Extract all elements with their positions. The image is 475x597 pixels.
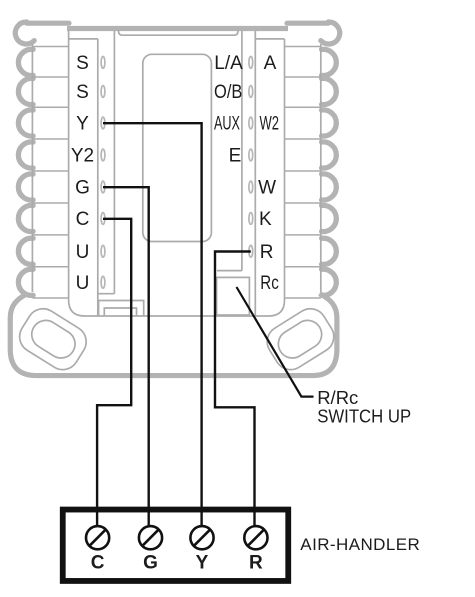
thermostat backplate top bar — [67, 26, 288, 31]
air-handler box — [63, 510, 289, 581]
right wire-comb scallop row 5 — [322, 174, 337, 200]
left holes strip right border — [113, 31, 115, 294]
right clip row separator y=46.5 — [285, 46, 321, 48]
svg-text:O/B: O/B — [214, 82, 242, 103]
left terminal hole row 3 — [101, 117, 105, 129]
right terminal box top border — [255, 38, 284, 40]
right mounting ear outer — [261, 303, 340, 376]
left wire-comb scallop row 7 — [18, 238, 33, 264]
left wire-comb scallop row 4 — [18, 142, 33, 168]
svg-text:U: U — [76, 273, 90, 294]
screw terminal G on air-handler — [139, 526, 162, 549]
left wire-comb scallop row 8 — [18, 269, 33, 295]
R/Rc switch leader line — [237, 287, 314, 397]
left wire-comb scallop row 6 — [18, 205, 33, 231]
left terminal hole row 2 — [101, 86, 105, 98]
left terminal hole row 5 — [101, 181, 105, 193]
svg-text:Y2: Y2 — [71, 146, 94, 167]
left bottom tab inner — [104, 308, 136, 316]
top-right wire clip — [287, 22, 340, 44]
left terminal hole row 6 — [101, 213, 105, 225]
left clip row separator y=203.0 — [32, 202, 68, 204]
svg-text:K: K — [259, 209, 272, 230]
right wire-comb scallop row 4 — [322, 142, 337, 168]
right clip row separator y=139.0 — [285, 138, 321, 140]
left terminal hole row 7 — [101, 245, 105, 257]
left mounting ear slot — [26, 315, 80, 363]
left wire-comb scallop row 2 — [18, 78, 33, 104]
R/Rc switch box — [217, 277, 250, 315]
right wire-comb scallop row 2 — [322, 78, 337, 104]
right terminal hole row 3 — [249, 117, 253, 129]
right clip row separator y=266.8 — [285, 266, 321, 268]
right terminal hole row 6 — [249, 213, 253, 225]
svg-text:L/A: L/A — [214, 53, 243, 74]
svg-text:S: S — [76, 82, 89, 103]
right terminal hole row 1 — [249, 57, 253, 69]
svg-text:C: C — [76, 209, 90, 230]
wire R: thermostat R terminal to air-handler R screw — [215, 252, 255, 527]
svg-text:C: C — [91, 553, 105, 574]
top notch below bar — [119, 30, 239, 35]
right terminal hole row 4 — [249, 149, 253, 161]
right clip row separator y=234.9 — [285, 234, 321, 236]
svg-text:S: S — [76, 53, 89, 74]
left wire-comb scallop row 5 — [18, 174, 33, 200]
left wire-comb scallop row 1 — [18, 49, 33, 75]
svg-text:G: G — [75, 178, 90, 199]
left mounting ear outer — [14, 303, 93, 376]
right terminal hole row 7 — [249, 245, 253, 257]
right wire-comb scallop row 8 — [322, 269, 337, 295]
left terminal hole row 8 — [101, 276, 105, 288]
left clip row separator y=171.0 — [32, 170, 68, 172]
left bottom tab outer — [99, 301, 144, 317]
svg-text:SWITCH UP: SWITCH UP — [317, 406, 411, 427]
inner bottom line — [84, 315, 269, 317]
left wire-comb scallop row 3 — [18, 110, 33, 136]
left clip row separator y=139.0 — [32, 138, 68, 140]
screw terminal C on air-handler — [86, 526, 109, 549]
svg-text:A: A — [264, 53, 277, 74]
right clip row separator y=298.0 — [285, 297, 321, 299]
left clip row separator y=298.0 — [32, 297, 68, 299]
right holes strip stub — [217, 270, 242, 272]
right holes strip left border — [241, 31, 243, 271]
right wire-comb scallop row 1 — [322, 49, 337, 75]
backplate bottom outline — [10, 294, 337, 376]
left terminal box left border — [69, 31, 85, 316]
left terminal box right border — [97, 39, 99, 316]
left clip row separator y=107.3 — [32, 106, 68, 108]
top-left wire clip — [15, 22, 69, 44]
svg-text:W: W — [258, 178, 276, 199]
svg-text:W2: W2 — [260, 114, 280, 135]
right terminal hole row 5 — [249, 181, 253, 193]
screw terminal R on air-handler — [244, 526, 267, 549]
right terminal hole row 2 — [249, 86, 253, 98]
left clip row separator y=234.9 — [32, 234, 68, 236]
left holes strip bottom cap — [98, 293, 115, 295]
right wire-comb scallop row 6 — [322, 205, 337, 231]
right comb spine — [320, 44, 322, 292]
svg-text:Y: Y — [196, 553, 209, 574]
svg-text:AIR-HANDLER: AIR-HANDLER — [300, 535, 420, 554]
left comb spine — [31, 44, 33, 292]
left terminal hole row 4 — [101, 149, 105, 161]
left clip row separator y=46.5 — [32, 46, 68, 48]
right clip row separator y=77.0 — [285, 76, 321, 78]
svg-text:G: G — [143, 553, 158, 574]
wire G: thermostat G terminal to air-handler G screw — [103, 187, 149, 526]
right wire-comb scallop row 3 — [322, 110, 337, 136]
svg-text:E: E — [229, 146, 242, 167]
right clip row separator y=203.0 — [285, 202, 321, 204]
svg-text:R: R — [260, 242, 274, 263]
right clip row separator y=107.3 — [285, 106, 321, 108]
right terminal box left border — [254, 31, 256, 316]
central opening rounded rect — [143, 54, 212, 241]
svg-text:AUX: AUX — [214, 114, 240, 135]
right mounting ear slot — [273, 315, 327, 363]
wire C: thermostat C terminal to air-handler C screw — [97, 219, 131, 526]
left terminal box top border — [69, 38, 98, 40]
left clip row separator y=77.0 — [32, 76, 68, 78]
right wire-comb scallop row 7 — [322, 238, 337, 264]
svg-text:R: R — [249, 553, 263, 574]
svg-text:U: U — [76, 242, 90, 263]
left terminal hole row 1 — [101, 57, 105, 69]
right terminal box right border — [269, 39, 285, 316]
left clip row separator y=266.8 — [32, 266, 68, 268]
wire Y: thermostat Y terminal to air-handler Y screw — [103, 123, 202, 526]
right clip row separator y=171.0 — [285, 170, 321, 172]
svg-text:Y: Y — [76, 114, 89, 135]
screw terminal Y on air-handler — [190, 526, 213, 549]
svg-text:Rc: Rc — [260, 273, 279, 294]
